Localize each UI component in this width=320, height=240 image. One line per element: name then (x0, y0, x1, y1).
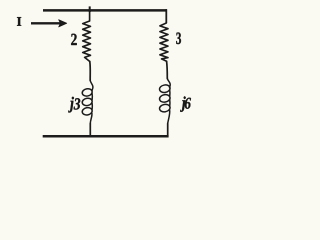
wire: bottom node (horizontal) (43, 135, 169, 138)
value label j6 (180, 96, 185, 111)
wire: top node (horizontal) (43, 9, 167, 12)
wire: right branch middle segment (166, 61, 169, 78)
wire: left branch middle segment (89, 62, 91, 81)
inductor L2 value j6 (right branch) (159, 79, 171, 124)
wire: right branch top corner + stub (165, 9, 167, 23)
value label 2 (71, 34, 77, 45)
current source arrow I (31, 20, 67, 27)
resistor R1 value 2 (left branch) (83, 12, 91, 62)
label I (current source) (17, 17, 21, 26)
inductor L1 value j3 (left branch) (82, 81, 93, 124)
wire: right branch bottom tail (167, 124, 169, 136)
resistor R2 value 3 (right branch) (160, 23, 168, 61)
junction tick above top wire at node A (89, 6, 91, 12)
value label 3 (176, 33, 181, 45)
paper background (0, 0, 207, 153)
wire: left branch bottom tail (89, 124, 91, 136)
value label j3 (68, 97, 74, 113)
